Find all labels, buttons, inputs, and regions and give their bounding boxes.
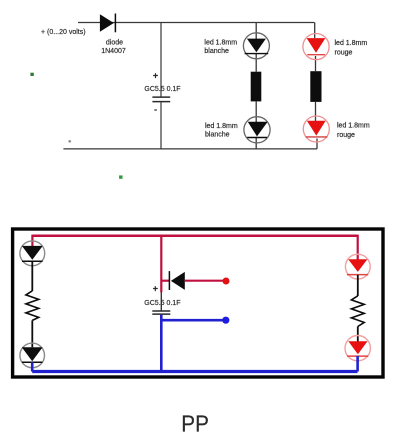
wire: black lead	[357, 275, 359, 296]
svg-text:diode: diode	[106, 39, 123, 46]
svg-text:GC5.5 0.1F: GC5.5 0.1F	[144, 86, 180, 93]
led D7 (bottom-left, blanche)	[20, 343, 45, 368]
svg-text:led 1.8mm: led 1.8mm	[335, 40, 368, 47]
led D5 1.8mm rouge (bottom)	[303, 116, 329, 142]
wire: bottom rail	[63, 148, 317, 150]
led D9 (bottom-right, rouge)	[345, 336, 370, 361]
led D6 (top-left, blanche)	[20, 241, 45, 266]
svg-text:blanche: blanche	[204, 48, 229, 55]
wire: red supply rail	[32, 235, 357, 293]
wire: blue lead	[31, 362, 34, 371]
wire: black lead	[357, 327, 359, 342]
terminal red dot	[223, 278, 230, 285]
svg-text:led 1.8mm: led 1.8mm	[204, 39, 237, 46]
resistor R3 (zigzag)	[26, 291, 39, 321]
diode D1 1N4007	[100, 14, 116, 33]
wire: top rail	[78, 22, 315, 24]
wire: white led branch vertical	[255, 23, 257, 149]
capacitor C2 plates	[152, 311, 170, 314]
wire: blue output lead	[161, 319, 225, 322]
terminal blue dot	[222, 317, 229, 324]
svg-text:led 1.8mm: led 1.8mm	[337, 122, 370, 129]
led D2 1.8mm blanche (top)	[243, 33, 269, 59]
wire: blue return rail	[32, 370, 357, 373]
wire: capacitor branch vertical	[160, 23, 162, 149]
led D4 1.8mm rouge (top)	[303, 34, 329, 60]
led D8 (top-right, rouge)	[345, 254, 370, 279]
resistor R1	[251, 72, 262, 102]
node marker green B	[119, 175, 122, 178]
node dot (gray)	[68, 140, 71, 143]
wire: blue lead	[356, 356, 359, 371]
svg-text:+ (0...20 volts): + (0...20 volts)	[41, 29, 86, 36]
node marker green A	[30, 73, 33, 76]
capacitor C1 plates	[152, 97, 170, 102]
svg-text:+: +	[153, 283, 158, 293]
board outline	[13, 229, 383, 377]
svg-text:PP: PP	[181, 410, 209, 437]
svg-text:rouge: rouge	[335, 50, 353, 57]
svg-text:-: -	[154, 104, 157, 114]
svg-text:led 1.8mm: led 1.8mm	[205, 123, 238, 130]
wire: red led branch vertical	[315, 23, 317, 149]
svg-text:GC5.5 0.1F: GC5.5 0.1F	[144, 300, 180, 307]
resistor R4 (zigzag)	[351, 296, 364, 327]
wire: red output lead	[185, 280, 226, 282]
diode D10 (middle)	[161, 271, 185, 290]
svg-text:+: +	[153, 70, 158, 80]
svg-text:1N4007: 1N4007	[101, 48, 126, 55]
wire: cap lead dark	[160, 292, 162, 311]
wire: black lead	[31, 320, 33, 347]
wire: blue cap lead	[160, 315, 163, 372]
wire: black lead	[31, 261, 33, 291]
svg-text:rouge: rouge	[337, 132, 355, 139]
svg-text:blanche: blanche	[205, 132, 230, 139]
resistor R2	[310, 71, 321, 102]
led D3 1.8mm blanche (bottom)	[244, 117, 270, 143]
